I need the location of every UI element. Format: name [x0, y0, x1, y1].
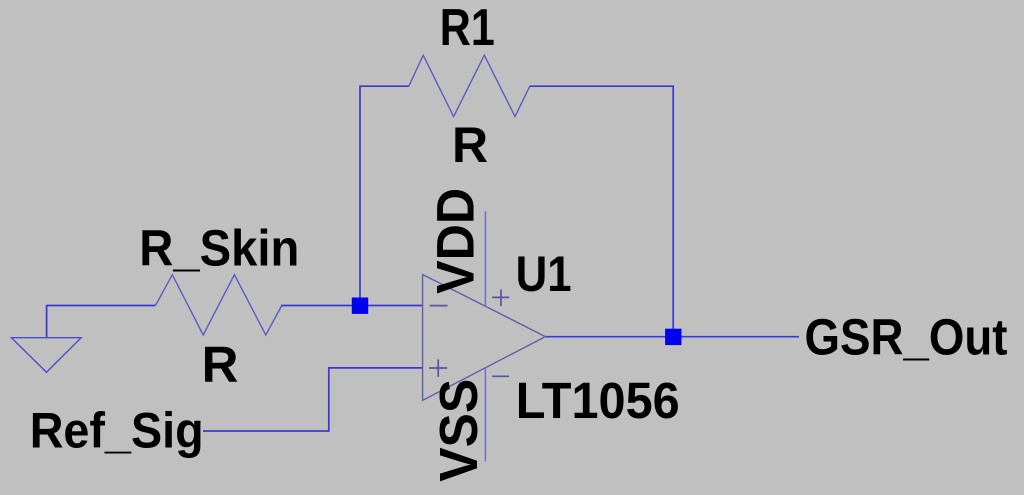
svg-text:R: R [452, 117, 488, 173]
op-amp inverting input minus mark [430, 305, 448, 307]
wire: Ref_Sig to op-amp non-inverting input [203, 368, 423, 431]
svg-text:U1: U1 [516, 246, 572, 302]
svg-text:Ref_Sig: Ref_Sig [30, 403, 204, 459]
op-amp V- power minus mark [492, 375, 509, 377]
svg-text:LT1056: LT1056 [516, 372, 680, 429]
wire: op-amp output to GSR_Out [545, 336, 799, 338]
op-amp VSS power pin [484, 368, 486, 462]
svg-text:VDD: VDD [427, 188, 486, 294]
svg-text:R1: R1 [440, 0, 495, 57]
op-amp U1 triangle [423, 275, 546, 401]
svg-text:R: R [202, 336, 239, 393]
svg-text:R_Skin: R_Skin [139, 220, 299, 277]
resistor R1 [409, 55, 530, 116]
svg-text:VSS: VSS [429, 379, 489, 482]
op-amp non-inverting input plus mark [429, 359, 447, 377]
wire: R_Skin right to node A [281, 305, 360, 307]
wire: ground stub to R_Skin left [47, 306, 156, 338]
node A junction [352, 298, 368, 314]
op-amp VDD power pin [484, 211, 486, 306]
op-amp V+ power plus mark [492, 289, 509, 306]
resistor R_Skin [156, 275, 282, 335]
wire: node A to op-amp inverting input [360, 305, 423, 307]
ground [11, 338, 81, 373]
node B junction [665, 329, 681, 345]
svg-text:GSR_Out: GSR_Out [805, 309, 1008, 366]
wire: R1 right down to node B [530, 86, 673, 337]
wire: node A up to R1 left [360, 86, 409, 305]
